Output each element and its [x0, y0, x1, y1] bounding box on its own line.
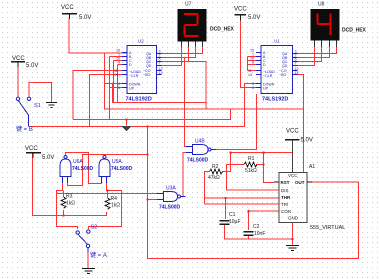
svg-text:74LS192D: 74LS192D [262, 97, 288, 103]
svg-text:7: 7 [295, 62, 297, 66]
svg-text:S1: S1 [34, 103, 41, 109]
svg-text:7: 7 [159, 62, 161, 66]
wire display U8 pin4 [294, 47, 337, 54]
counter U1 74LS192D [261, 39, 293, 103]
wire B-line y127 [29, 84, 261, 127]
svg-text:555_VIRTUAL: 555_VIRTUAL [310, 225, 345, 231]
svg-text:U8: U8 [318, 2, 325, 8]
svg-text:键 = A: 键 = A [90, 251, 107, 259]
wire VCC rail to 555 [231, 152, 294, 154]
counter U2 74LS192D [126, 39, 157, 103]
svg-text:5.0V: 5.0V [42, 155, 54, 161]
svg-text:U1: U1 [274, 39, 280, 44]
wire display U7 pin2 [159, 47, 189, 62]
svg-text:UP: UP [263, 87, 269, 91]
ground G3 (555) [286, 246, 299, 251]
nand gate U4B [186, 139, 216, 164]
ground G4 (triangle, digital gnd) [121, 126, 132, 132]
svg-text:VCC: VCC [234, 7, 247, 13]
wire R3 top stub [63, 191, 65, 198]
svg-text:OUT: OUT [295, 180, 305, 185]
svg-text:VCC: VCC [288, 173, 298, 178]
wire display U7 pin3 [159, 47, 196, 58]
VCC symbol V4 (left, latch pullups) [25, 146, 54, 161]
svg-text:C2: C2 [253, 224, 260, 230]
svg-text:C1: C1 [229, 212, 236, 218]
svg-text:13: 13 [159, 71, 163, 75]
svg-text:U3A: U3A [166, 186, 176, 192]
wire latch cross-couple left-out to right-in [66, 153, 102, 184]
svg-text:THR: THR [281, 195, 291, 200]
svg-text:QD: QD [282, 64, 288, 68]
svg-text:10nF: 10nF [254, 231, 265, 237]
wire S1 throw to ground loop [29, 83, 52, 103]
VCC symbol V3 (top middle) [234, 7, 260, 22]
wire R2 right stub up to VCC rail [222, 153, 231, 172]
svg-text:VCC: VCC [25, 146, 38, 152]
wire C1 C2 bottom rail to 555 gnd [225, 225, 293, 239]
wire U4B output to U1 area [216, 94, 257, 150]
wire U2 pin4 row [105, 83, 128, 85]
svg-text:14: 14 [248, 73, 252, 77]
wire R3 bottom stub [63, 210, 65, 216]
nand gate U3A [157, 186, 186, 211]
wire latch right out to B-junction vertical [105, 154, 148, 156]
svg-text:QD: QD [146, 64, 152, 68]
wire G4 ground stub [126, 120, 128, 126]
svg-text:R4: R4 [111, 196, 118, 202]
wire 555 CON line [249, 210, 280, 212]
svg-text:D: D [129, 63, 132, 67]
svg-text:U4B: U4B [195, 139, 205, 145]
svg-text:GND: GND [288, 216, 299, 221]
resistor R1 51k [244, 156, 257, 174]
resistor R3 1k [61, 194, 75, 209]
wire U2 data row D [118, 65, 128, 103]
wire RST tie to VCC rail [264, 165, 275, 183]
wire 555 THR line [205, 197, 280, 199]
svg-text:9: 9 [118, 61, 120, 65]
svg-text:5.0V: 5.0V [248, 15, 260, 21]
svg-text:9: 9 [252, 61, 254, 65]
svg-text:U6A: U6A [73, 159, 83, 165]
wire latch right node box to S2 right contact [89, 177, 122, 230]
wire R4 top stub [107, 191, 109, 199]
svg-text:~BO: ~BO [279, 73, 286, 77]
svg-text:74LS00D: 74LS00D [111, 166, 133, 172]
wire 555 vcc stub [292, 140, 294, 173]
VCC symbol V1 (top left) [61, 5, 91, 21]
seven-segment display U8 [311, 2, 367, 48]
svg-text:74LS192D: 74LS192D [126, 97, 152, 103]
wire R2 left stub [205, 172, 210, 205]
wire U2 pin14 row [90, 75, 128, 127]
capacitor C2 10nF [244, 224, 266, 237]
wire R1 right stub up [256, 153, 264, 165]
svg-text:DCD_HEX: DCD_HEX [342, 28, 367, 34]
wire bus L0 y102.5 [113, 84, 207, 103]
svg-text:U5A: U5A [112, 159, 122, 165]
wire bus L1 y108.5 [105, 53, 304, 173]
VCC symbol V2 (left, for S1) [11, 56, 38, 69]
svg-text:A1: A1 [309, 164, 315, 170]
svg-text:5: 5 [118, 86, 120, 90]
wire latch cross-couple right-out to left-in [68, 155, 105, 186]
wire VCC V4 down to R3/R4 bottom rail [33, 153, 107, 216]
wire U2 pin11 row [73, 71, 127, 120]
svg-text:13: 13 [295, 71, 299, 75]
svg-text:51kΩ: 51kΩ [245, 168, 257, 174]
wire display U7 pin4 [159, 47, 203, 54]
nand gate U5A (latch right, pointing up) [99, 156, 133, 184]
svg-text:1kΩ: 1kΩ [66, 201, 75, 207]
svg-text:R2: R2 [212, 164, 219, 170]
svg-text:RST: RST [281, 180, 290, 185]
svg-text:5: 5 [252, 86, 254, 90]
switch S1 [16, 97, 41, 133]
wire VCC V2 to S1 pole [17, 62, 19, 97]
ground G1 (S1) [46, 103, 57, 108]
svg-text:10µF: 10µF [229, 219, 241, 225]
svg-text:S2: S2 [91, 225, 98, 231]
wire U1 data rows tie [248, 57, 262, 71]
wire 555 DIS line [227, 189, 280, 191]
ground G2 (S2) [82, 269, 95, 274]
wire display U8 pin2 [294, 47, 322, 62]
svg-text:DIS: DIS [281, 188, 289, 193]
VCC symbol V5 (555) [285, 129, 313, 144]
U2 pin stubs and labels [122, 53, 162, 88]
svg-text:~CLR: ~CLR [129, 74, 139, 78]
wire display U7 pin1 [159, 47, 182, 66]
svg-text:47kΩ: 47kΩ [208, 175, 220, 181]
svg-text:VCC: VCC [61, 5, 74, 11]
svg-text:74LS00D: 74LS00D [72, 166, 94, 172]
svg-text:键 = B: 键 = B [16, 125, 33, 133]
svg-text:5.0V: 5.0V [301, 138, 313, 144]
wire U3A output up [184, 196, 185, 198]
wire 555 gnd stub [292, 223, 294, 246]
wire bus L2 y118.5 [73, 109, 231, 120]
svg-text:5.0V: 5.0V [79, 15, 91, 21]
wire display U8 pin3 [294, 47, 330, 58]
wire VCC V1 down to U2 row A [69, 19, 127, 54]
seven-segment display U7 [178, 2, 235, 48]
wire U2 data row B [110, 57, 128, 120]
wire latch left node box to S2 left contact [57, 177, 78, 230]
svg-text:U2: U2 [138, 39, 144, 44]
wire U2 data row A [105, 52, 128, 54]
svg-text:DCD_HEX: DCD_HEX [210, 27, 235, 33]
svg-text:74LS00D: 74LS00D [159, 205, 181, 211]
svg-text:5.0V: 5.0V [26, 63, 38, 69]
wire R1 left stub down to DIS [227, 165, 245, 191]
wire U2 pin5 row [110, 87, 128, 89]
capacitor C1 10uF [220, 212, 241, 225]
wire 555 TRI line [205, 203, 280, 205]
nand gate U6A (latch left, pointing up) [60, 156, 94, 184]
wire VCC V3 down to U1 pin5 [241, 21, 262, 88]
svg-text:R1: R1 [248, 156, 255, 162]
svg-text:R3: R3 [66, 194, 73, 200]
wire C1 top stub [225, 198, 227, 219]
svg-text:VCC: VCC [286, 129, 299, 135]
wire U4B input2 from U3A out [183, 153, 193, 197]
svg-text:~BO: ~BO [143, 73, 150, 77]
switch S2 [76, 225, 107, 260]
svg-text:1kΩ: 1kΩ [111, 203, 120, 209]
svg-text:U7: U7 [185, 2, 192, 8]
svg-text:D: D [263, 63, 266, 67]
svg-text:UP: UP [129, 87, 135, 91]
wire U2 QB row down to U4B input1 [185, 58, 193, 147]
timer A1 555_VIRTUAL [274, 164, 345, 231]
svg-text:CON: CON [281, 209, 291, 214]
wire C2 top stub [248, 211, 250, 230]
wire S2 bottom to ground [87, 253, 89, 269]
wire U3A input1 line from latch left node [57, 193, 164, 195]
wire U3A in2 tap [148, 199, 164, 201]
wire U2 data row C [114, 61, 128, 103]
svg-text:14: 14 [114, 73, 118, 77]
wire U1 BO pin13 loop down to bus L1 [298, 75, 304, 110]
wire display U8 pin1 [294, 47, 315, 66]
U1 pin stubs and labels [256, 53, 298, 88]
svg-text:74LS00D: 74LS00D [187, 158, 209, 164]
resistor R2 47k [208, 164, 223, 181]
svg-text:~CLR: ~CLR [263, 74, 273, 78]
svg-text:TRI: TRI [281, 202, 288, 207]
wire B-line junction down to U3A in2 and bottom loop [148, 127, 359, 259]
resistor R4 1k [105, 196, 120, 209]
wire U2 QC row extension down to bus L1 [189, 62, 207, 110]
